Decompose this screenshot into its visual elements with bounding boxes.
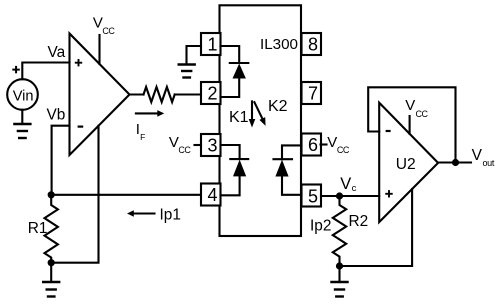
op-amp U2 — [379, 103, 438, 222]
label U2 minus input — [386, 130, 391, 132]
junction output node — [452, 159, 459, 166]
svg-text:7: 7 — [308, 84, 318, 104]
wire Vin bottom to ground — [21, 110, 23, 124]
coupling arrow K2 — [254, 102, 265, 126]
ground R2 — [332, 282, 348, 297]
ground Vin — [14, 124, 30, 138]
wire U1 output to series resistor — [130, 93, 144, 95]
svg-text:Ip2: Ip2 — [310, 218, 331, 235]
feedback wire U2 — [368, 87, 455, 162]
resistor LED series — [144, 87, 175, 102]
svg-text:K1: K1 — [229, 109, 249, 126]
pin 1 — [201, 33, 221, 55]
label U1 plus input — [75, 59, 82, 66]
wire pin 1 to internal ground — [187, 46, 202, 65]
wire U2 negative supply to ground rail — [340, 189, 413, 266]
svg-text:Ip1: Ip1 — [160, 207, 181, 224]
ground R1 — [43, 282, 59, 297]
pin 7 — [302, 82, 322, 104]
svg-text:6: 6 — [308, 135, 318, 155]
svg-text:VCC: VCC — [327, 134, 350, 155]
wire U1 negative supply to ground rail — [51, 126, 98, 263]
svg-text:VCC: VCC — [93, 14, 116, 36]
LED (pins 1-2) — [221, 46, 249, 97]
svg-text:VCC: VCC — [169, 134, 192, 155]
wire Vin top to U1 non-inverting input — [22, 63, 69, 80]
svg-text:4: 4 — [208, 185, 218, 205]
label U2 plus input — [385, 190, 392, 197]
svg-text:5: 5 — [308, 187, 318, 207]
ground pin 1 — [179, 65, 195, 78]
junction node Vc — [336, 192, 343, 199]
pin 2 — [201, 82, 221, 104]
svg-text:Va: Va — [48, 44, 66, 61]
svg-text:Vc: Vc — [340, 175, 356, 194]
wire R1 bottom to ground — [50, 263, 52, 282]
junction R1 bottom — [48, 259, 55, 266]
photodiode PD1 (pins 3-4) — [221, 145, 249, 195]
wire R2 bottom to ground — [338, 266, 340, 282]
junction R2 bottom — [336, 262, 343, 269]
svg-text:1: 1 — [208, 35, 218, 55]
voltage source Vin — [7, 79, 38, 110]
label + polarity of Vin — [12, 66, 19, 73]
wire Vb node to pin 4 — [51, 194, 201, 196]
svg-text:2: 2 — [208, 84, 218, 104]
current arrow Ip1 — [127, 210, 155, 217]
photodiode PD2 (pins 6-5) — [274, 145, 302, 194]
wire U2 output to Vout — [438, 161, 471, 163]
pin 6 — [302, 134, 322, 156]
IC IL300 body — [220, 5, 302, 236]
pin 4 — [201, 184, 221, 206]
wire Vb to U1 inverting input — [52, 126, 70, 195]
svg-text:K2: K2 — [268, 98, 288, 115]
label U1 minus input — [78, 125, 84, 127]
resistor R2 — [333, 196, 346, 266]
Vcc wire to pin 3 — [195, 144, 202, 146]
svg-text:U2: U2 — [396, 156, 416, 173]
svg-text:Vin: Vin — [13, 89, 34, 105]
pin 5 — [302, 185, 322, 207]
svg-text:Vb: Vb — [47, 107, 66, 124]
pin 8 — [302, 33, 322, 55]
svg-text:IF: IF — [136, 121, 146, 142]
svg-text:Vout: Vout — [472, 147, 495, 168]
pin 3 — [201, 134, 221, 156]
svg-text:8: 8 — [308, 35, 318, 55]
resistor R1 — [45, 195, 58, 263]
svg-text:3: 3 — [208, 136, 218, 156]
U2 Vcc tick — [409, 116, 411, 134]
coupling arrow K1 — [249, 101, 256, 127]
junction node Vb — [48, 191, 55, 198]
-Vcc dash at pin 6 — [321, 143, 327, 145]
svg-text:IL300: IL300 — [260, 36, 298, 53]
wire pin 5 to U2 non-inverting input — [321, 195, 379, 197]
svg-text:R1: R1 — [28, 220, 48, 237]
current arrow IF — [136, 110, 164, 117]
U1 Vcc tick — [98, 35, 100, 64]
op-amp U1 — [70, 34, 130, 156]
wire series resistor to pin 2 — [175, 93, 201, 95]
svg-text:R2: R2 — [349, 213, 369, 230]
